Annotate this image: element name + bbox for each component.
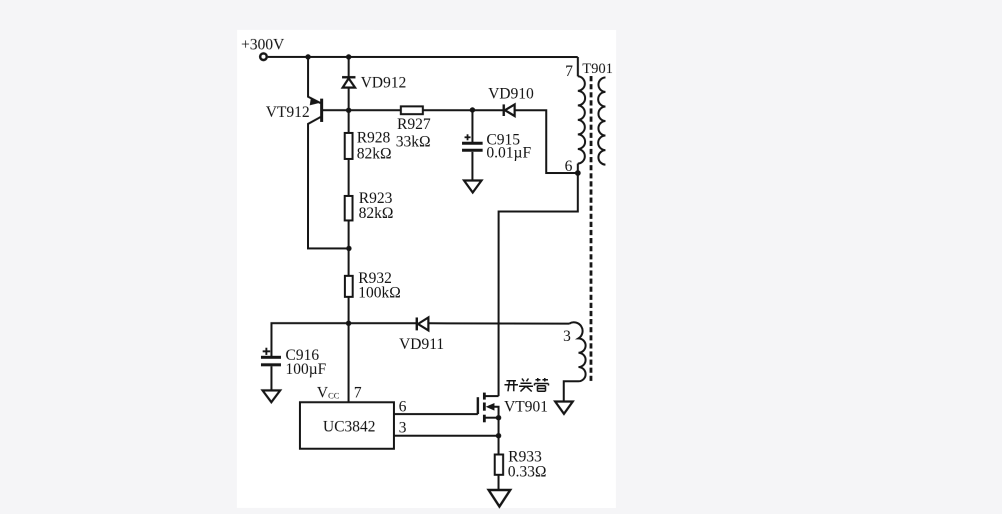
transistor VT912 xyxy=(308,57,349,249)
resistor R933 xyxy=(489,454,511,506)
wire R923 bottom xyxy=(348,220,350,248)
T901 secondary winding right xyxy=(598,77,605,164)
svg-text:7: 7 xyxy=(565,63,573,80)
wire C916 top from rail xyxy=(271,323,348,356)
svg-text:+300V: +300V xyxy=(241,36,285,53)
wire VT912 base lead xyxy=(323,109,349,111)
wire VD911 right to winding 3 xyxy=(428,322,569,324)
svg-text:VD912: VD912 xyxy=(361,75,407,92)
wire R933 bottom xyxy=(498,475,500,490)
C916 bottom plate xyxy=(261,363,281,366)
ground C915 xyxy=(464,180,482,192)
glyph 管 xyxy=(534,378,548,391)
label VT901 Chinese 开关管 xyxy=(504,378,548,392)
terminal +300V xyxy=(260,53,267,60)
diode VD911 xyxy=(349,317,570,330)
VT901 body lead xyxy=(489,407,499,418)
svg-text:3: 3 xyxy=(399,419,407,436)
svg-text:33kΩ: 33kΩ xyxy=(396,134,431,151)
svg-text:R927: R927 xyxy=(397,116,431,133)
glyph 关 xyxy=(519,379,533,392)
svg-text:VD911: VD911 xyxy=(399,336,444,353)
svg-text:7: 7 xyxy=(354,385,362,402)
wire VT912 collector xyxy=(308,117,349,249)
wire source down xyxy=(498,418,500,455)
wire primary to pin6 node xyxy=(577,164,579,174)
white schematic panel xyxy=(237,30,616,508)
VD910 cathode bar xyxy=(503,104,505,116)
capacitor C916 xyxy=(261,323,349,402)
svg-text:0.01µF: 0.01µF xyxy=(486,144,531,161)
R933 body xyxy=(495,454,503,474)
svg-text:6: 6 xyxy=(399,398,407,415)
VT901 channel segment middle xyxy=(483,402,486,410)
wire VD912 anode xyxy=(348,88,350,111)
C915 bottom plate xyxy=(462,149,483,152)
svg-text:0.33Ω: 0.33Ω xyxy=(508,464,547,481)
VT901 channel segment bottom xyxy=(483,415,486,423)
ground C916 xyxy=(263,390,281,402)
T901 winding 3 xyxy=(555,322,585,414)
wire pin7 lead xyxy=(577,57,579,76)
wire R928 top xyxy=(348,110,350,133)
wire VD910 anode-side from C915 node xyxy=(472,109,503,111)
resistor R928 xyxy=(345,110,353,196)
svg-text:UC3842: UC3842 xyxy=(323,418,376,435)
ground winding 3 xyxy=(555,402,573,414)
C916 top plate xyxy=(261,356,281,359)
VT912 base bar xyxy=(320,99,323,122)
T901 primary coil xyxy=(578,76,585,163)
wire R932 bottom xyxy=(348,297,350,323)
wire VD911 left xyxy=(349,322,416,324)
wire VD910 right then down to pin6 xyxy=(515,110,578,173)
wire pin6 down, left, down to VT901 drain xyxy=(499,173,578,396)
UC3842 box xyxy=(300,402,394,449)
VD911 cathode bar xyxy=(416,317,418,330)
transformer T901 primary winding 7-6 xyxy=(578,57,585,173)
VT901 drain lead xyxy=(484,395,498,397)
svg-text:T901: T901 xyxy=(582,61,613,77)
node R927/C915/VD910 xyxy=(470,107,475,112)
wire VT912 emitter xyxy=(308,57,321,103)
svg-text:VD910: VD910 xyxy=(488,86,534,103)
resistor R923 xyxy=(345,196,353,251)
svg-text:VT901: VT901 xyxy=(504,399,548,416)
svg-text:82kΩ: 82kΩ xyxy=(359,205,394,222)
winding 3 coil xyxy=(569,322,585,381)
VT901 gate bar xyxy=(477,397,479,414)
resistor R932 xyxy=(345,248,353,326)
capacitor C915 xyxy=(462,110,483,192)
VD911 triangle xyxy=(418,317,428,330)
svg-text:3: 3 xyxy=(563,328,571,345)
C915 plus sign xyxy=(465,134,471,140)
svg-text:100kΩ: 100kΩ xyxy=(358,284,401,301)
ground main xyxy=(489,490,511,507)
MOSFET VT901 xyxy=(478,393,501,455)
node source/pin3 xyxy=(496,433,501,438)
node collector/R923/R932 xyxy=(346,246,351,251)
wire UC3842 pin6 to gate xyxy=(394,413,478,415)
node source/body xyxy=(496,415,501,420)
wire R932 top xyxy=(348,248,350,275)
svg-text:6: 6 xyxy=(565,158,573,175)
resistor R927 xyxy=(349,106,476,114)
C915 top plate xyxy=(462,142,483,145)
svg-text:R928: R928 xyxy=(357,129,391,146)
VD912 triangle xyxy=(343,78,355,87)
node R932/C916/VD911/Vcc xyxy=(346,321,351,326)
VD912 cathode bar xyxy=(342,76,355,78)
VT901 channel segment top xyxy=(483,393,486,400)
wire C915 top xyxy=(471,110,473,142)
wire C916 bottom xyxy=(270,366,272,390)
wire R928 bottom xyxy=(348,159,350,196)
wire R927 left xyxy=(349,109,401,111)
wire top rail xyxy=(268,56,578,58)
wire R927 right xyxy=(423,109,473,111)
R928 body xyxy=(345,133,353,159)
VT912 emitter arrow xyxy=(310,97,320,105)
node top rail / VT912 emitter xyxy=(305,54,310,59)
R932 body xyxy=(345,276,353,297)
svg-text:100µF: 100µF xyxy=(285,361,326,378)
T901 core dashed line xyxy=(590,76,593,381)
VD910 triangle xyxy=(505,104,515,116)
wire winding3 to ground xyxy=(564,381,579,401)
wire C915 bottom xyxy=(471,152,473,180)
VT901 source lead xyxy=(484,417,498,419)
node pin6 xyxy=(575,170,581,176)
C916 plus sign xyxy=(263,348,271,355)
diode VD910 xyxy=(472,104,580,176)
wire Vcc line to UC3842 pin7 xyxy=(348,323,350,402)
node base/VD912/R927/R928 xyxy=(346,108,351,113)
diode VD912 xyxy=(342,57,355,113)
node top rail / VD912 xyxy=(346,54,351,59)
R923 body xyxy=(345,196,353,221)
IC UC3842 xyxy=(300,402,394,449)
wire VD912 cathode to rail xyxy=(348,57,350,77)
wire UC3842 pin3 to source node xyxy=(394,435,499,437)
glyph 开 xyxy=(504,381,518,392)
svg-text:82kΩ: 82kΩ xyxy=(357,145,392,162)
R927 body xyxy=(401,106,423,114)
VT901 body arrow xyxy=(486,403,495,411)
svg-text:VT912: VT912 xyxy=(266,104,310,121)
